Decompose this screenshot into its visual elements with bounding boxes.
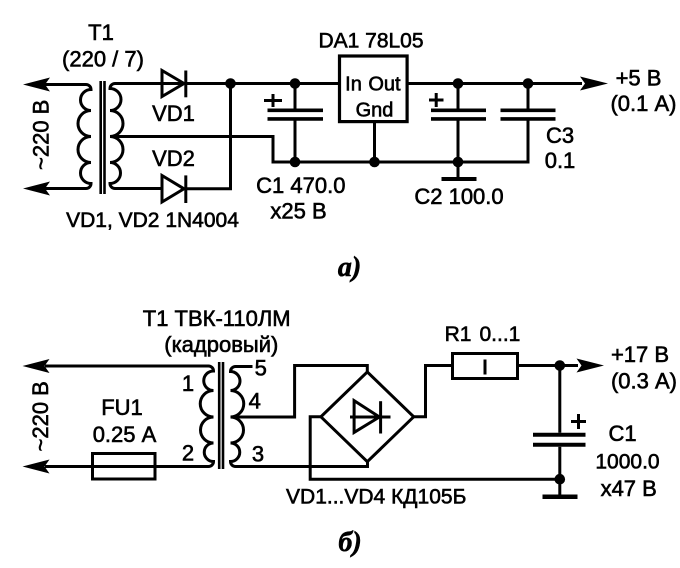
capacitor C2: [457, 84, 460, 110]
svg-text:C1 470.0: C1 470.0: [256, 173, 345, 198]
wire: top rail VD1 cathode to DA1 In: [162, 82, 340, 85]
svg-text:х25 В: х25 В: [270, 199, 326, 224]
transformer T1 core: [99, 81, 102, 194]
node: C2 top: [453, 78, 464, 89]
diode VD2: [162, 176, 184, 203]
svg-text:VD2: VD2: [152, 146, 195, 171]
capacitor C1 (top circuit): [294, 84, 297, 110]
arrow: AC top lead (top circuit): [23, 78, 50, 92]
svg-text:Т1 ТВК-110ЛМ: Т1 ТВК-110ЛМ: [143, 306, 291, 331]
bridge inner diode symbol: [350, 416, 391, 419]
wire: secondary pin4 tap to bridge top corner: [231, 366, 368, 418]
svg-text:3: 3: [252, 442, 264, 467]
node: C3 top: [523, 78, 534, 89]
node: junction VD2/VD1 outputs: [225, 78, 236, 89]
svg-text:R1: R1: [445, 323, 472, 346]
wire: bridge left corner to bottom rail: [310, 417, 560, 479]
wire: bridge right corner to R1: [414, 366, 453, 417]
arrow: AC bottom lead (top circuit): [23, 182, 50, 196]
node: C1 bottom: [290, 157, 301, 168]
svg-text:VD1...VD4 КД105Б: VD1...VD4 КД105Б: [286, 486, 466, 509]
node: C1 bottom rail junction: [555, 474, 566, 485]
wire: DA1 Gnd pin to bottom rail: [373, 122, 376, 162]
svg-text:1000.0: 1000.0: [595, 451, 659, 474]
node: C2 bottom: [453, 157, 464, 168]
svg-text:4: 4: [249, 389, 261, 414]
svg-text:C2 100.0: C2 100.0: [414, 184, 503, 209]
arrow: +5V output: [580, 77, 608, 91]
diode bridge VD1-VD4 diamond: [321, 372, 414, 462]
node: output junction bottom circuit: [555, 360, 566, 371]
svg-text:~220 В: ~220 В: [29, 100, 54, 170]
svg-text:(кадровый): (кадровый): [164, 332, 278, 357]
svg-text:5: 5: [255, 356, 267, 381]
svg-text:х47 В: х47 В: [601, 476, 657, 501]
svg-text:Gnd: Gnd: [356, 100, 394, 122]
svg-text:In: In: [345, 74, 362, 96]
node: C1 top: [290, 78, 301, 89]
capacitor C3: [527, 84, 530, 110]
svg-text:(0.1 А): (0.1 А): [610, 91, 676, 116]
svg-text:+17 В: +17 В: [611, 342, 669, 367]
svg-text:FU1: FU1: [101, 395, 143, 420]
wire: secondary center tap to common rail, then bottom rail to C3: [110, 121, 528, 163]
transformer T1 secondary winding: [110, 84, 162, 189]
svg-text:Out: Out: [368, 74, 401, 96]
arrow: AC top lead (bottom circuit): [23, 359, 50, 373]
svg-text:0...1: 0...1: [480, 323, 521, 346]
svg-text:~220 В: ~220 В: [28, 381, 53, 451]
resistor R1: [453, 354, 518, 379]
svg-text:2: 2: [182, 441, 194, 466]
svg-text:VD1: VD1: [152, 101, 195, 126]
wire: VD2 output up to top rail: [186, 84, 231, 189]
wire: C1 to ground stub: [558, 479, 561, 494]
transformer T1 (TVK-110LM) primary winding: [45, 366, 214, 467]
ground (bottom circuit): [543, 495, 578, 500]
transformer T1 primary winding: [45, 85, 91, 189]
capacitor C1 (bottom circuit): [558, 366, 561, 433]
svg-text:(0.3 А): (0.3 А): [611, 369, 677, 394]
svg-text:0.25 А: 0.25 А: [93, 422, 157, 447]
svg-text:1: 1: [182, 371, 194, 396]
svg-text:C1: C1: [608, 421, 636, 446]
svg-text:0.1: 0.1: [545, 148, 576, 173]
svg-text:T1: T1: [88, 20, 114, 45]
op-amp U1 regulator DA1 box: [340, 56, 408, 122]
svg-text:(220 / 7): (220 / 7): [62, 47, 144, 72]
svg-text:DA1 78L05: DA1 78L05: [318, 30, 423, 53]
node: DA1 gnd on rail: [369, 157, 380, 168]
svg-text:+5 В: +5 В: [616, 66, 662, 91]
wire: C2 to ground stub: [457, 162, 460, 177]
diode VD1: [162, 71, 184, 97]
arrow: AC bottom lead (bottom circuit): [23, 460, 50, 474]
svg-text:б): б): [338, 527, 361, 558]
ground (top circuit): [442, 177, 477, 181]
transformer core (bottom): [218, 362, 221, 469]
svg-text:а): а): [338, 252, 361, 283]
transformer secondary winding with pin5 stub, pin3 lead to bridge: [231, 367, 368, 467]
wire: R1 to output arrow: [518, 364, 579, 367]
svg-text:C3: C3: [546, 123, 574, 148]
arrow: +17V output: [577, 359, 605, 373]
svg-text:VD1, VD2 1N4004: VD1, VD2 1N4004: [66, 209, 239, 232]
fuse FU1: [93, 454, 156, 480]
wire: DA1 Out to output arrow: [407, 82, 582, 85]
